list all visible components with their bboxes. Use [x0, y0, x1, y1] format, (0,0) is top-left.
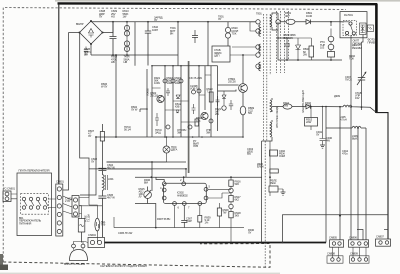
svg-text:CN805: CN805 — [329, 236, 337, 240]
rail lower y55 — [91, 54, 178, 56]
diode D801 — [306, 20, 318, 25]
wire secondary mid out to y110 — [271, 98, 273, 112]
thick distribution line y242 — [105, 242, 327, 244]
wire pot top to rail — [152, 162, 186, 191]
capacitor C604 — [98, 168, 106, 174]
rail y177.2 — [135, 176, 262, 178]
wire bridge left to vertical — [69, 32, 80, 34]
resistor R607 rect — [100, 132, 104, 142]
wire third vertical — [80, 32, 89, 198]
svg-text:CN809: CN809 — [350, 252, 358, 256]
svg-text:VD602: VD602 — [146, 88, 150, 96]
junction dot x116 — [95, 54, 117, 138]
rail bottom y137 — [96, 136, 243, 138]
diode D910 — [306, 104, 343, 109]
junction dots on top rail — [112, 21, 209, 56]
svg-text:Д909: Д909 — [334, 94, 340, 98]
wire bottom pin left — [174, 205, 176, 227]
fusible resistor R809 oval — [240, 106, 246, 115]
snubber cap C611 — [192, 30, 198, 43]
wire x96 drop — [80, 137, 96, 195]
bridge rectifier inner diode — [89, 29, 94, 38]
rail top y65.8 — [152, 65, 218, 67]
base wire from control box — [218, 85, 239, 91]
resistor R615 circle — [124, 46, 129, 51]
wire into box left — [140, 109, 147, 112]
box stabilizer — [212, 46, 230, 62]
resistor R621 circles column x228 — [225, 27, 230, 32]
trimpot R915 — [144, 191, 152, 199]
capacitor C610 on x148 — [145, 22, 151, 66]
resistor R613 circle — [124, 31, 129, 36]
wire feedback rails left — [102, 162, 186, 169]
transistor Q603 — [201, 112, 208, 119]
IC pin circles right — [204, 187, 208, 191]
wire y110 secondary out — [272, 106, 283, 108]
resistor R623 rect — [209, 92, 213, 102]
wire standby branch down — [278, 24, 342, 60]
svg-text:CN604: CN604 — [88, 233, 96, 237]
scan edge strip top — [55, 0, 400, 2]
ground symbol — [281, 189, 286, 195]
IC pin circle top-left — [162, 182, 166, 186]
wire x135 drop — [134, 22, 136, 66]
rail x199 — [198, 66, 200, 137]
scan edge blob bottom-left — [0, 254, 3, 270]
dashed enclosure bottom — [3, 244, 270, 268]
wire pot bottom net — [135, 204, 156, 228]
rail x211 — [210, 66, 212, 137]
fusible resistor R801 oval — [286, 19, 295, 24]
wire pins 3-4 stubs — [230, 47, 256, 55]
svg-text:T3.15A: T3.15A — [86, 214, 90, 222]
mains connector CN602 strip — [72, 196, 79, 218]
rail x205 — [204, 66, 206, 110]
svg-text:C910РЕЖОЖИ: C910РЕЖОЖИ — [279, 149, 286, 158]
feedback regulator section — [89, 141, 262, 243]
hook over CN806 — [357, 230, 363, 240]
rail left x147 — [146, 69, 148, 137]
frame top line — [58, 2, 378, 5]
node junction x278 — [276, 20, 280, 24]
node top rail — [91, 20, 256, 23]
transformer primary winding upper — [259, 25, 261, 37]
right column resistor chain x231 — [229, 180, 233, 186]
diode D611 — [176, 95, 180, 99]
transformer shield dashed lines — [277, 11, 289, 73]
svg-text:FC-CN601: FC-CN601 — [3, 187, 16, 191]
svg-text:L906ВЫХ: L906ВЫХ — [352, 134, 358, 141]
capacitor C615 — [155, 113, 159, 126]
tick near bus — [384, 229, 388, 231]
switchboard outer box — [3, 173, 102, 236]
resistor R921 circle — [163, 79, 167, 83]
section bottom line — [114, 217, 244, 228]
left feed wire x116 — [115, 55, 117, 137]
neon lamp HL601 — [95, 218, 100, 231]
zener D806 — [287, 38, 301, 60]
output rectifier section — [272, 42, 376, 243]
diode D613 — [176, 110, 179, 113]
fusible resistor R912 oval — [283, 104, 292, 109]
degauss coil symbol — [152, 136, 170, 162]
svg-text:CN901: CN901 — [56, 180, 64, 184]
svg-text:CN808: CN808 — [327, 252, 335, 256]
internal jumpers cluster — [152, 75, 211, 122]
standby chain mid — [269, 141, 286, 196]
transformer secondary winding mid — [270, 100, 272, 112]
inductor L906 — [352, 126, 366, 128]
snubber diode cluster — [222, 91, 226, 105]
photo receiver rect — [368, 25, 374, 32]
IC pin circles left — [162, 188, 166, 192]
capacitor C616 — [192, 104, 196, 114]
wire x208 drop — [207, 22, 209, 66]
capacitor C618 — [195, 119, 199, 126]
frame right step to output bus — [376, 113, 388, 239]
wire pin2 stub — [250, 22, 256, 31]
small parts right — [217, 208, 221, 216]
relay pins down — [351, 35, 363, 108]
capacitor C603 — [84, 47, 88, 56]
dashed enclosure left/top — [3, 8, 346, 262]
resistor circles bottom row — [166, 125, 170, 129]
wire second vertical — [63, 33, 69, 191]
transformer primary winding lower — [259, 44, 261, 53]
wire x243 collector from pin4 — [242, 55, 244, 84]
capacitor C809 — [278, 38, 290, 60]
resistor R614 circle — [124, 41, 129, 46]
switch contacts — [22, 197, 25, 200]
IC pin circles bottom — [173, 202, 177, 206]
transistor Q602 — [157, 95, 164, 102]
wires IC right to column — [208, 189, 231, 198]
wire standby rail y215 — [282, 215, 388, 244]
power plug — [70, 242, 88, 261]
transformer T801 core dashed — [264, 11, 289, 268]
filter choke L601 — [102, 175, 104, 197]
capacitor C606 on x113 — [110, 22, 117, 55]
bridge rectifier VD601 — [80, 21, 103, 44]
wire to relay — [318, 22, 342, 26]
svg-text:R602ЛУ W: R602ЛУ W — [131, 105, 138, 112]
inter-row stubs — [332, 247, 366, 258]
wire secondary low out — [262, 120, 272, 141]
FC-CN601 connector — [3, 191, 11, 202]
rail x152 — [151, 66, 153, 137]
verticals to connectors — [340, 107, 366, 240]
vertical x261.6 standby feed — [261, 141, 263, 243]
transformer secondary winding top — [270, 15, 272, 27]
rails from filter — [89, 162, 186, 169]
svg-text:CN807: CN807 — [376, 235, 384, 239]
svg-text:RL7001: RL7001 — [344, 13, 353, 17]
svg-text:L601: L601 — [108, 177, 114, 181]
svg-text:D8011N40: D8011N40 — [306, 11, 313, 18]
svg-text:ДЕЖУРРЕЖИМ: ДЕЖУРРЕЖИМ — [352, 43, 363, 50]
rail x173 — [172, 66, 174, 137]
IC pin circle top-mid — [182, 182, 186, 186]
transformer aux winding — [259, 62, 261, 71]
resistor circle R926 — [209, 119, 213, 123]
capacitor C907 — [181, 205, 187, 227]
svg-text:ПОСДЕГА: ПОСДЕГА — [171, 145, 178, 152]
svg-text:С905 ЛУ 2W: С905 ЛУ 2W — [118, 231, 133, 235]
rail x217.5 right edge — [217, 66, 219, 131]
connector row CN805 — [327, 230, 391, 264]
mains connector CN601 strip — [56, 184, 63, 236]
transformer pin terminals — [256, 20, 260, 24]
lower output wire y131 — [326, 107, 352, 243]
svg-text:ЗАЩИТА ВЫХ ЦЕП: ЗАЩИТА ВЫХ ЦЕП — [301, 90, 305, 113]
thermistor PTC circles — [328, 36, 334, 42]
svg-text:КТ8012SC50: КТ8012SC50 — [228, 77, 236, 84]
capacitor C620 — [216, 96, 220, 106]
wire x178 drop — [177, 22, 179, 66]
plug dome — [70, 250, 88, 261]
svg-text:T801: T801 — [256, 12, 262, 16]
svg-text:ИС В-239: ИС В-239 — [190, 76, 203, 80]
svg-text:ОТКЛ РЕЖ ОЖИД: ОТКЛ РЕЖ ОЖИД — [275, 106, 279, 128]
svg-text:R606W ЛУ: R606W ЛУ — [101, 82, 108, 89]
ground C940 — [320, 145, 325, 148]
svg-text:ПУСК56 1/4: ПУСК56 1/4 — [124, 125, 131, 132]
capacitor C619 — [166, 88, 170, 96]
inductor L905 — [343, 105, 376, 112]
fuse F601 — [78, 198, 99, 243]
IC901 box — [164, 183, 207, 203]
wire bridge bottom down — [90, 44, 92, 55]
wire secondary top out — [272, 13, 278, 30]
relay opto diode box — [360, 23, 367, 35]
snubber R913 C940 — [305, 118, 318, 127]
capacitor with arrow C811 — [357, 42, 366, 110]
connector CN604 — [85, 238, 105, 248]
bridge corner dots — [79, 20, 104, 45]
gray scan streak bus — [188, 61, 190, 173]
resistor R923 circle — [179, 79, 183, 83]
resistor R922 circle — [171, 79, 175, 83]
relay RL801 — [340, 12, 374, 107]
svg-text:CN806: CN806 — [349, 236, 357, 240]
svg-text:СЕТЕВОЙ ФИЛЬТР РАДИОПОМЕХ: СЕТЕВОЙ ФИЛЬТР РАДИОПОМЕХ — [100, 264, 147, 268]
resistor R939 — [199, 205, 201, 227]
svg-text:ПЛАТА ПЕРЕКЛЮЧАТЕЛЯ: ПЛАТА ПЕРЕКЛЮЧАТЕЛЯ — [19, 169, 50, 173]
switch dashed box B01 — [21, 194, 49, 215]
resistor R810 rect — [309, 46, 314, 57]
wire left vertical from frame corner — [58, 4, 60, 185]
power transistor Q801 — [239, 84, 248, 93]
svg-text:ВЫПР: ВЫПР — [76, 22, 84, 26]
resistor R612 circle — [124, 25, 129, 30]
control section rails — [96, 55, 247, 173]
connector row 2 — [327, 256, 343, 263]
svg-text:R907 56 ВЧ: R907 56 ВЧ — [157, 217, 170, 221]
svg-text:ВИЛКА ПИТАНИЯ: ВИЛКА ПИТАНИЯ — [64, 262, 85, 266]
relay contact dashed box — [343, 21, 356, 36]
resistor circle R925 — [197, 89, 201, 93]
frame right bar — [375, 4, 378, 114]
wire bridge right — [103, 22, 114, 33]
svg-text:C610104П: C610104П — [152, 25, 159, 32]
rail x181 — [180, 66, 182, 137]
capacitor C605 — [98, 196, 106, 237]
transformer secondary winding low — [270, 122, 272, 137]
resistor circle small — [192, 90, 196, 94]
svg-text:C907102P: C907102P — [186, 217, 193, 224]
junction dots control — [146, 65, 244, 138]
rail x165 — [164, 66, 166, 137]
